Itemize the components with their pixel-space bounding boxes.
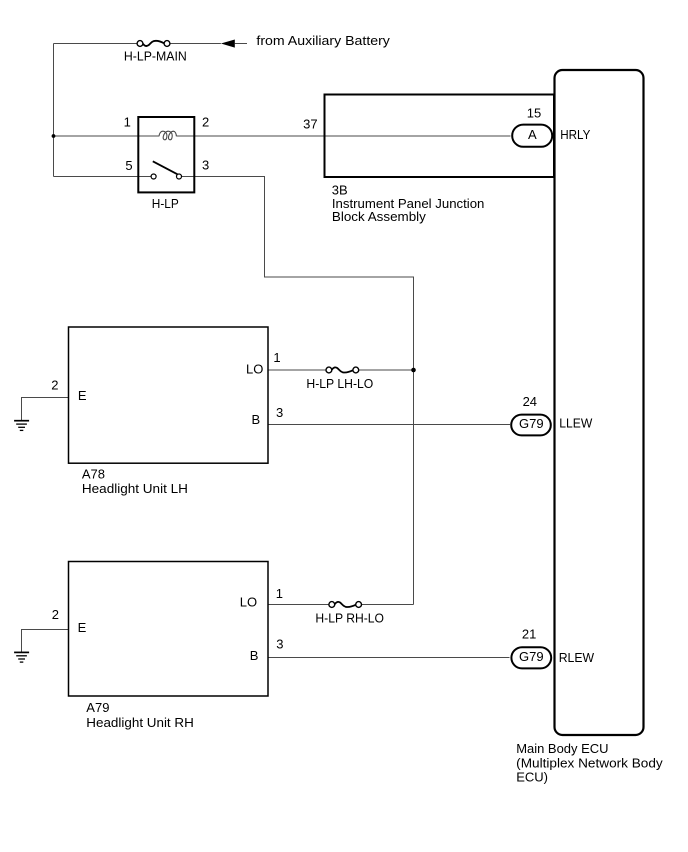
- svg-text:A78: A78: [82, 466, 105, 481]
- svg-text:E: E: [78, 620, 87, 635]
- svg-text:B: B: [252, 412, 261, 427]
- svg-text:G79: G79: [519, 416, 544, 431]
- svg-text:5: 5: [125, 158, 132, 173]
- svg-text:3: 3: [276, 405, 283, 420]
- svg-text:E: E: [78, 388, 87, 403]
- svg-text:Headlight Unit RH: Headlight Unit RH: [86, 715, 194, 730]
- svg-text:1: 1: [276, 586, 283, 601]
- svg-text:3: 3: [202, 158, 209, 173]
- svg-text:G79: G79: [519, 649, 544, 664]
- svg-text:21: 21: [522, 627, 536, 642]
- svg-text:3: 3: [276, 636, 283, 651]
- svg-text:H-LP LH-LO: H-LP LH-LO: [306, 376, 373, 391]
- svg-text:2: 2: [202, 115, 209, 130]
- svg-text:A: A: [528, 127, 537, 142]
- svg-text:A79: A79: [86, 700, 109, 715]
- svg-text:LO: LO: [246, 362, 263, 377]
- svg-text:37: 37: [303, 117, 317, 132]
- svg-text:LO: LO: [240, 595, 257, 610]
- svg-text:15: 15: [527, 106, 541, 121]
- svg-text:Main Body ECU: Main Body ECU: [516, 741, 608, 756]
- svg-text:2: 2: [51, 378, 58, 393]
- svg-text:1: 1: [124, 115, 131, 130]
- svg-text:RLEW: RLEW: [559, 650, 595, 665]
- svg-text:H-LP RH-LO: H-LP RH-LO: [315, 611, 384, 626]
- svg-text:2: 2: [52, 607, 59, 622]
- svg-text:Block Assembly: Block Assembly: [332, 209, 427, 224]
- svg-text:24: 24: [523, 394, 537, 409]
- svg-text:(Multiplex Network Body: (Multiplex Network Body: [516, 756, 663, 771]
- svg-text:HRLY: HRLY: [560, 127, 590, 142]
- svg-text:1: 1: [273, 350, 280, 365]
- svg-text:Headlight Unit LH: Headlight Unit LH: [82, 481, 188, 496]
- svg-text:B: B: [250, 648, 259, 663]
- svg-text:H-LP: H-LP: [152, 196, 179, 211]
- svg-text:LLEW: LLEW: [559, 415, 593, 430]
- svg-text:H-LP-MAIN: H-LP-MAIN: [124, 49, 187, 64]
- svg-text:ECU): ECU): [516, 770, 548, 785]
- svg-text:from Auxiliary Battery: from Auxiliary Battery: [256, 33, 390, 48]
